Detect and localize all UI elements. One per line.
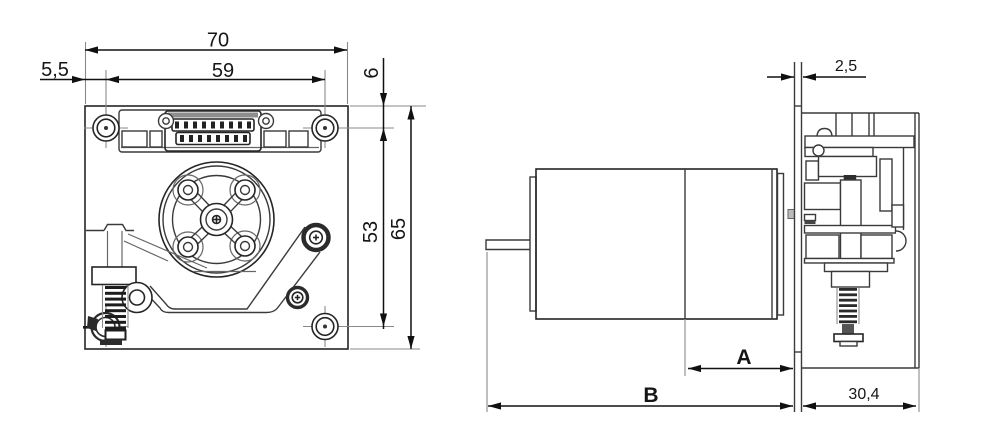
- extension line top screw row right: [340, 127, 394, 129]
- hub outer: [201, 204, 233, 236]
- head right edge: [914, 113, 916, 368]
- motor/gearbox divider: [684, 169, 686, 319]
- dim 65 up arrow: [407, 107, 414, 120]
- extension line head right: [918, 368, 920, 412]
- dim 30,4 line: [803, 405, 916, 407]
- jack screw right: [259, 114, 274, 129]
- roller bottom-right: [235, 236, 255, 256]
- spider arms: [190, 192, 244, 246]
- small left rect: [805, 215, 816, 221]
- front flange: [778, 174, 784, 316]
- mount screw top-right: [312, 115, 338, 141]
- extension line left screw center: [105, 70, 107, 118]
- tall right bar: [880, 159, 892, 211]
- svg-text:70: 70: [207, 30, 229, 52]
- dim 53 down arrow: [380, 314, 387, 327]
- svg-text:65: 65: [388, 218, 410, 240]
- dim 6/53 up arrow: [380, 128, 387, 141]
- bracket arm verticals: [107, 231, 109, 267]
- extension line plate bottom right: [350, 348, 420, 350]
- rotor disc: [173, 176, 261, 264]
- bolt shaft: [842, 324, 854, 334]
- dim 65 vertical line: [410, 106, 412, 349]
- dim 2,5 right line: [803, 76, 866, 78]
- small block left: [806, 161, 819, 180]
- roller top-right: [235, 180, 255, 200]
- bolt tip: [840, 342, 857, 347]
- motor body: [536, 169, 777, 319]
- gearbox seam: [771, 169, 773, 319]
- extension line left plate edge: [85, 42, 87, 104]
- pump housing outer circle: [159, 162, 274, 277]
- side tab left B: [150, 131, 162, 147]
- svg-text:6: 6: [361, 67, 383, 78]
- tube channel upper polyline: [150, 227, 305, 309]
- D-sub top grey band: [168, 113, 258, 118]
- bracket top edge left: [86, 230, 104, 232]
- T block: [832, 272, 870, 288]
- connector bar: [119, 110, 321, 152]
- side tab right B: [289, 131, 308, 147]
- mount screw bottom-right crosshair: [303, 326, 347, 328]
- D-sub pin row 2: [176, 133, 250, 145]
- mount screw bottom-left crosshair: [84, 326, 128, 328]
- svg-text:30,4: 30,4: [848, 386, 879, 403]
- motor shaft: [486, 240, 530, 250]
- connector pins side: [835, 113, 837, 148]
- idler roller bottom-right: [288, 288, 308, 308]
- roller bottom-left: [178, 237, 198, 257]
- bolt head: [834, 334, 863, 342]
- side spring rails: [836, 288, 838, 324]
- tube channel lower polyline: [143, 252, 320, 313]
- anchor lower bar: [100, 340, 122, 346]
- dim 6 down arrow: [380, 93, 387, 106]
- second bar: [805, 148, 873, 157]
- bracket diagonal edge: [128, 234, 207, 268]
- tension lever block: [92, 267, 136, 285]
- head bottom line: [802, 367, 919, 369]
- roller slot arcs: [173, 175, 203, 205]
- dim 2,5 left line: [767, 76, 794, 78]
- bottom clamp bar: [805, 259, 895, 264]
- extension line right plate edge: [347, 42, 349, 104]
- lower bar: [825, 263, 888, 272]
- dim 65 down arrow: [407, 336, 414, 349]
- mounting plate lines: [794, 62, 796, 412]
- mid-left block: [805, 183, 841, 210]
- tube channel chord under rotor: [193, 271, 256, 273]
- mount screw bottom-right: [312, 314, 338, 340]
- dim 5,5 right-pointing arrow: [72, 76, 85, 83]
- dim 59 left arrow: [106, 76, 119, 83]
- roller top-left: [178, 180, 198, 200]
- side screw circle: [813, 145, 824, 156]
- anchor plate: [106, 331, 126, 340]
- screw slot tick: [83, 326, 95, 329]
- dim A line: [688, 368, 793, 370]
- D-sub pins row 1: [175, 122, 251, 129]
- side tab left A: [122, 131, 147, 147]
- jack screw left: [159, 114, 174, 129]
- head side plate edge: [903, 148, 905, 231]
- screw head bump: [817, 129, 832, 137]
- svg-text:B: B: [643, 384, 658, 407]
- front plate outline: [85, 106, 348, 349]
- hub shaft: [213, 216, 221, 224]
- right attach block: [892, 205, 904, 227]
- mount screw top-right crosshair: [303, 127, 347, 129]
- dim B line: [488, 405, 793, 407]
- wide clamp bar: [805, 226, 896, 234]
- dim 59 right arrow: [312, 76, 325, 83]
- right bulge: [896, 231, 906, 251]
- connector bar inner bottom line: [121, 147, 319, 149]
- extension line plate top right: [350, 105, 426, 107]
- extension line B left: [486, 252, 488, 412]
- large mid block: [819, 157, 877, 177]
- head top line: [802, 112, 919, 114]
- svg-text:5,5: 5,5: [41, 59, 69, 81]
- mount screw bottom-left: [92, 313, 120, 341]
- side tab right A: [264, 131, 286, 147]
- spring coil: [105, 286, 126, 330]
- dark clamp mark: [844, 175, 857, 180]
- dim 70 left arrow: [85, 46, 98, 53]
- plate top tick: [795, 105, 802, 107]
- extension line bottom screw row right: [340, 326, 394, 328]
- dim 6 / 53 vertical line: [383, 58, 385, 329]
- center column: [841, 180, 862, 262]
- extension line A left: [684, 319, 686, 376]
- dim 59 / 5,5 line: [40, 79, 325, 81]
- D-sub pins row 2: [180, 135, 247, 142]
- motor end cap: [530, 177, 536, 311]
- D-sub pin row 1: [172, 119, 254, 131]
- spring rails: [102, 285, 104, 328]
- mount screw top-left: [93, 115, 119, 141]
- svg-text:A: A: [736, 346, 751, 369]
- idler roller top-right: [304, 225, 329, 250]
- shaft key block: [788, 210, 795, 219]
- D-sub connector body: [165, 111, 261, 151]
- side spring coil: [839, 288, 857, 323]
- tension roller: [122, 283, 152, 313]
- dim 70 right arrow: [334, 46, 347, 53]
- small dark bar: [805, 221, 816, 225]
- plate bottom tick: [795, 351, 802, 353]
- svg-text:2,5: 2,5: [835, 58, 857, 75]
- pump housing inner circle: [163, 166, 270, 273]
- extension line right screw center: [324, 70, 326, 118]
- dim 70 line: [85, 49, 347, 51]
- mount screw top-left crosshair: [84, 127, 128, 129]
- bracket pivot bump: [104, 225, 134, 231]
- anchor hook: [87, 316, 98, 331]
- left jaw: [806, 235, 839, 259]
- svg-text:53: 53: [360, 221, 382, 243]
- right jaw: [861, 235, 892, 259]
- top rail bar: [805, 136, 914, 148]
- svg-text:59: 59: [212, 60, 234, 82]
- hub inner: [206, 209, 227, 230]
